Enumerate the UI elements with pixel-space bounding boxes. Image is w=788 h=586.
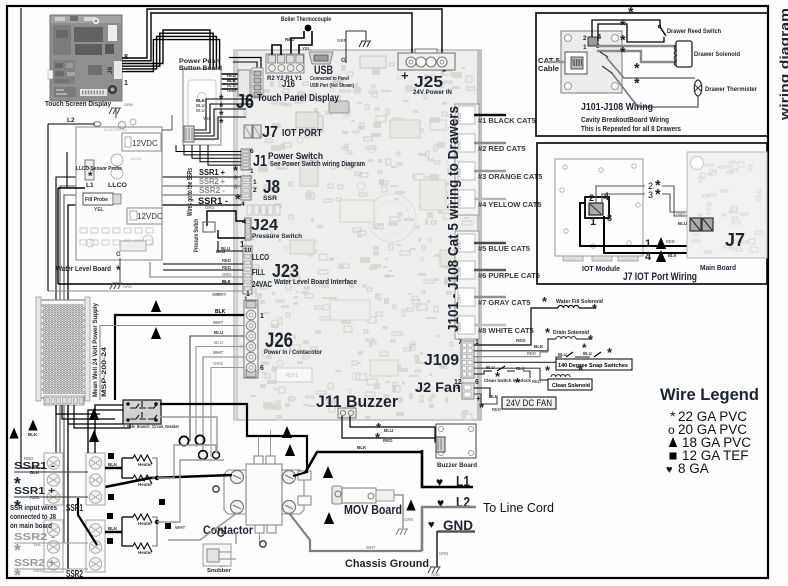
svg-text:J101-J108 Wiring: J101-J108 Wiring [581, 101, 653, 113]
RJ45 jack [565, 52, 587, 74]
board left edge bar [234, 50, 238, 420]
J7 IOT port wiring box [537, 143, 767, 284]
svg-text:J23: J23 [272, 260, 299, 281]
heater gray feeds [157, 445, 216, 478]
cat5 stub wire 7 [474, 296, 506, 299]
svg-text:Pressure Switch: Pressure Switch [252, 233, 302, 240]
clean switch interlock [474, 371, 492, 374]
svg-text:MSP-200-24: MSP-200-24 [101, 347, 108, 397]
MOV board [332, 486, 342, 504]
svg-text:*: * [628, 5, 634, 21]
svg-text:RLY1: RLY1 [286, 373, 298, 379]
svg-text:J25: J25 [414, 74, 443, 91]
svg-text:SSR: SSR [263, 195, 277, 202]
IOT wires 1 4 thick [580, 203, 713, 246]
svg-text:SSR1 +: SSR1 + [199, 168, 225, 177]
svg-text:GRA: GRA [227, 88, 236, 93]
svg-text:GRN: GRN [337, 38, 347, 43]
left triangles [9, 428, 18, 439]
small switch glyphs on board [600, 52, 608, 57]
connector J25 [398, 53, 455, 70]
watermark text wiring diagram [777, 8, 788, 121]
contactor lower wires [289, 513, 310, 540]
svg-text:J24: J24 [251, 217, 278, 234]
svg-text:See Power Switch wiring Diagra: See Power Switch wiring Diagram [270, 161, 365, 168]
cat5 stub wire 5 [474, 242, 506, 245]
svg-text:G: G [116, 252, 121, 258]
IOT wires 2 3 [596, 186, 645, 203]
svg-text:J8: J8 [263, 177, 280, 197]
svg-text:o: o [668, 423, 675, 437]
svg-text:*: * [14, 565, 21, 585]
svg-text:2_Pole_Branch_Circuit_Breaker: 2_Pole_Branch_Circuit_Breaker [123, 424, 179, 429]
svg-text:J7: J7 [262, 124, 278, 141]
svg-text:J6: J6 [236, 91, 254, 113]
breaker feed wires right [160, 404, 307, 476]
svg-text:Wires go to the SSRs: Wires go to the SSRs [187, 168, 194, 216]
LLCO probe [85, 160, 94, 180]
svg-text:3: 3 [607, 213, 612, 223]
svg-text:Cavity BreakoutBoard Wiring: Cavity BreakoutBoard Wiring [581, 115, 669, 124]
drain solenoid circuit [474, 339, 556, 351]
svg-text:J16: J16 [282, 79, 295, 90]
svg-text:BLU: BLU [214, 330, 223, 335]
svg-text:RED: RED [527, 351, 536, 356]
svg-text:12VDC: 12VDC [137, 212, 163, 221]
breakout board [561, 31, 622, 93]
svg-text:connected to J8: connected to J8 [10, 512, 56, 521]
svg-text:12VDC: 12VDC [132, 139, 158, 148]
J16 jumper wire [272, 45, 281, 55]
svg-text:FILL: FILL [252, 268, 265, 277]
main board fragment [687, 152, 767, 258]
svg-text:WHT: WHT [213, 320, 223, 325]
svg-text:BLK: BLK [108, 526, 118, 531]
svg-text:ORG: ORG [33, 568, 44, 573]
chassis ground wire [310, 540, 422, 551]
GRN ground wire [346, 31, 366, 63]
reed switch blade [658, 25, 660, 27]
svg-text:ORG: ORG [213, 361, 224, 366]
svg-text:*: * [655, 187, 661, 203]
relay on board [276, 368, 312, 382]
svg-text:Fill Probe: Fill Probe [85, 197, 108, 203]
connector J107 [458, 288, 475, 306]
svg-text:GRN: GRN [439, 551, 448, 556]
connector J105 [458, 234, 475, 252]
breaker left wires [95, 405, 123, 453]
svg-text:#1 BLACK CAT5: #1 BLACK CAT5 [478, 116, 536, 125]
board silk big circle [368, 194, 416, 242]
svg-text:GRN: GRN [124, 102, 133, 107]
svg-text:Drawer Reed Switch: Drawer Reed Switch [667, 29, 721, 35]
svg-text:*: * [219, 117, 224, 130]
pressure switch side label [193, 219, 200, 252]
connector J11 [338, 408, 356, 418]
connector J8 [241, 176, 251, 200]
connector J104 [458, 190, 475, 208]
cat5 stub wire 2 [474, 142, 506, 145]
svg-text:This is Repeated for all 8 Dra: This is Repeated for all 8 Drawers [581, 124, 681, 133]
svg-text:Clean Solenoid: Clean Solenoid [552, 383, 590, 389]
svg-text:J7 IOT Port Wiring: J7 IOT Port Wiring [623, 271, 697, 283]
svg-text:4: 4 [645, 251, 652, 263]
PSU wires [56, 405, 100, 414]
svg-text:To Line Cord: To Line Cord [483, 500, 554, 515]
svg-text:BLU: BLU [516, 366, 525, 371]
svg-text:1: 1 [246, 291, 250, 298]
svg-text:WHT: WHT [213, 350, 223, 355]
svg-text:Heater: Heater [138, 521, 152, 526]
drawer solenoid [597, 45, 676, 47]
svg-text:Cable: Cable [538, 66, 559, 73]
J101-J108 wiring box [536, 13, 768, 136]
connector J26 [244, 300, 258, 378]
svg-text:RED: RED [516, 338, 526, 343]
svg-text:GND: GND [431, 572, 440, 577]
svg-text:Contactor: Contactor [203, 525, 253, 537]
svg-text:RED: RED [24, 456, 34, 461]
svg-text:LLCO RELAY: LLCO RELAY [104, 128, 128, 132]
svg-text:1: 1 [124, 80, 128, 87]
board texture [238, 55, 480, 421]
main board PCB [234, 50, 481, 420]
connector J103 [458, 162, 475, 180]
SSR wires to J8 [56, 177, 241, 472]
svg-text:Drawer Solenoid: Drawer Solenoid [694, 52, 740, 58]
svg-text:Chassis Ground: Chassis Ground [345, 558, 429, 570]
svg-text:Power Switch: Power Switch [268, 151, 323, 161]
svg-text:WHT: WHT [366, 545, 376, 550]
SSR cross wire [78, 498, 97, 545]
svg-text:J7: J7 [725, 230, 745, 250]
svg-text:GRN: GRN [404, 517, 413, 522]
svg-text:SSR1: SSR1 [66, 503, 83, 514]
J6 label on display photo [107, 66, 114, 74]
svg-text:RED: RED [30, 495, 40, 500]
svg-text:6: 6 [260, 365, 264, 372]
svg-text:6: 6 [475, 379, 479, 386]
svg-text:Buzzer Board: Buzzer Board [437, 462, 477, 469]
svg-text:J101 - J108 Cat 5 wiring to Dr: J101 - J108 Cat 5 wiring to Drawers [445, 106, 462, 332]
svg-text:BLK: BLK [108, 462, 118, 467]
svg-text:Wire Legend: Wire Legend [660, 386, 759, 404]
svg-text:24V Power IN: 24V Power IN [413, 90, 452, 96]
cat5 stub wire 4 [474, 198, 506, 201]
svg-text:Clean Switch Interlock: Clean Switch Interlock [484, 378, 531, 384]
svg-text:2: 2 [583, 35, 587, 42]
svg-text:Pressure Switch: Pressure Switch [193, 219, 200, 252]
thermistor wires [606, 57, 695, 78]
svg-text:LLCO Sensor Probe: LLCO Sensor Probe [76, 166, 122, 172]
contactor feed wires [95, 475, 232, 489]
connector J16 [266, 54, 304, 73]
svg-text:#8 WHITE CAT5: #8 WHITE CAT5 [478, 326, 534, 335]
svg-text:SSR2 +: SSR2 + [199, 177, 225, 186]
24V DC FAN box [474, 388, 490, 397]
svg-text:WHT: WHT [212, 292, 222, 297]
vertical label J101-J108 cat5 wiring [445, 106, 462, 332]
J23 wires [218, 241, 243, 251]
snubber [203, 544, 231, 566]
svg-text:Button Board: Button Board [179, 65, 222, 72]
IOT module board [555, 159, 643, 256]
svg-text:BLK: BLK [28, 432, 38, 437]
push button board connector [184, 126, 194, 142]
svg-text:♥: ♥ [666, 464, 673, 476]
connector J1 [241, 149, 250, 170]
svg-text:BLU: BLU [384, 428, 393, 433]
svg-text:1: 1 [260, 313, 264, 320]
svg-text:BLU: BLU [678, 221, 687, 226]
legend 12 GA TEF [670, 453, 677, 460]
fill probe [83, 193, 113, 205]
wires J1 to button board [176, 145, 241, 152]
svg-text:*: * [670, 408, 676, 424]
svg-text:BLU: BLU [558, 352, 567, 357]
wire to J25 + [122, 13, 412, 61]
connector J109 [461, 341, 474, 378]
svg-text:1: 1 [645, 238, 651, 250]
svg-text:SSR input wires: SSR input wires [10, 503, 57, 512]
contactor [224, 456, 311, 533]
svg-text:RED: RED [222, 265, 231, 270]
svg-text:J6: J6 [107, 66, 114, 74]
svg-text:1: 1 [253, 179, 257, 186]
connector J102 [458, 134, 475, 152]
svg-text:Snubber: Snubber [207, 568, 231, 574]
svg-text:2: 2 [589, 193, 594, 203]
svg-text:Touch Screen Display: Touch Screen Display [45, 101, 111, 108]
svg-text:LLCO: LLCO [252, 253, 269, 262]
svg-text:Touch Panel Display: Touch Panel Display [257, 92, 339, 104]
water board bottom components [80, 228, 87, 233]
connector J2 [462, 383, 474, 399]
heater group 2 [105, 531, 122, 533]
svg-text:#7 GRAY CAT5: #7 GRAY CAT5 [478, 298, 530, 307]
svg-text:4: 4 [603, 191, 610, 203]
J6 wire loop [229, 58, 261, 92]
svg-text:+: + [401, 68, 409, 83]
svg-text:on main board: on main board [10, 521, 52, 530]
connectors J101-J108 [455, 104, 479, 215]
cat5 stub wire 1 [474, 114, 506, 117]
legend 18 GA PVC [669, 437, 678, 447]
svg-text:Heater: Heater [138, 550, 152, 555]
water fill solenoid circuit [474, 308, 558, 345]
svg-text:MOV Board: MOV Board [344, 503, 402, 517]
svg-text:Main Board: Main Board [700, 265, 736, 272]
connector J106 [458, 261, 475, 279]
board right edge bar [478, 50, 482, 420]
svg-text:RED: RED [222, 258, 231, 263]
snubber wire [235, 533, 237, 544]
svg-text:4: 4 [241, 201, 245, 208]
cat5 stub wire 6 [474, 269, 506, 272]
svg-text:140 Degree Snap Switches: 140 Degree Snap Switches [558, 363, 628, 369]
connector J108 [458, 316, 475, 334]
svg-text:*: * [582, 342, 587, 355]
svg-text:Power Push: Power Push [179, 58, 220, 65]
svg-text:RED: RED [383, 438, 393, 443]
SSR2 block [44, 520, 63, 572]
svg-text:RED: RED [532, 379, 541, 384]
left edge long wires [21, 8, 44, 468]
wires go to the SSRs label [187, 168, 194, 216]
svg-text:Heater: Heater [138, 482, 152, 487]
cat5 stub wire 3 [474, 170, 506, 173]
svg-text:J2 Fan: J2 Fan [415, 380, 461, 395]
svg-text:YEL: YEL [203, 116, 212, 121]
svg-text:LLCO: LLCO [108, 182, 127, 189]
label mean well [92, 303, 99, 397]
svg-text:ORG: ORG [676, 212, 686, 217]
pressure switch loop [207, 211, 245, 226]
buzzer board [436, 424, 476, 458]
svg-text:YEL: YEL [33, 542, 42, 547]
connector J6 [238, 70, 250, 96]
svg-text:1: 1 [590, 216, 596, 228]
wire to J25 - [122, 9, 442, 58]
svg-text:-: - [442, 62, 446, 77]
svg-text:24VAC: 24VAC [252, 280, 272, 289]
USB connector [309, 52, 333, 64]
svg-text:BLK: BLK [357, 445, 367, 450]
connector J101 [458, 106, 475, 124]
svg-text:8 GA: 8 GA [678, 461, 709, 476]
svg-text:RED: RED [666, 239, 675, 244]
MOV ground [394, 495, 403, 528]
svg-text:IOT PORT: IOT PORT [282, 128, 322, 139]
SSR1 block [44, 453, 63, 505]
svg-text:7: 7 [458, 339, 462, 346]
connector J7 [244, 125, 252, 138]
svg-text:♥: ♥ [428, 519, 435, 531]
svg-text:1: 1 [583, 44, 587, 51]
svg-text:#5 BLUE CAT5: #5 BLUE CAT5 [478, 244, 530, 253]
water level board [76, 127, 162, 260]
svg-text:10: 10 [244, 247, 252, 254]
cat5 stub wire 8 [474, 324, 506, 327]
svg-text:SSR2: SSR2 [66, 569, 83, 580]
svg-text:RED: RED [492, 407, 501, 412]
svg-text:WHT: WHT [175, 525, 185, 530]
svg-text:#3 ORANGE CAT5: #3 ORANGE CAT5 [478, 172, 542, 181]
svg-text:24V DC FAN: 24V DC FAN [506, 398, 552, 409]
svg-text:ORG: ORG [222, 272, 232, 277]
svg-text:Connected to Panel: Connected to Panel [310, 76, 349, 82]
clean solenoid circuit [474, 368, 548, 380]
J7 connector on main board [690, 218, 701, 231]
svg-text:BLU: BLU [486, 365, 495, 370]
svg-text:#2 RED CAT5: #2 RED CAT5 [478, 144, 525, 153]
svg-text:BLK: BLK [668, 253, 677, 258]
svg-text:J1: J1 [253, 153, 267, 170]
reed switch wire loop outer [592, 20, 660, 37]
power push button board [183, 69, 221, 145]
svg-text:BLK: BLK [30, 470, 40, 475]
svg-text:*: * [620, 45, 626, 61]
svg-text:GRN: GRN [123, 284, 132, 289]
svg-text:J109: J109 [424, 352, 459, 369]
connector J23 [243, 246, 252, 294]
contactor coil stubs [258, 437, 260, 456]
svg-text:SSR2 -: SSR2 - [199, 186, 225, 195]
wires push button to J6 connector [194, 99, 252, 130]
svg-text:USB: USB [314, 63, 333, 77]
svg-text:Heater: Heater [138, 462, 152, 467]
J26 wires [115, 315, 244, 400]
svg-text:LLCO: LLCO [131, 157, 141, 161]
svg-text:Drain Solenoid: Drain Solenoid [553, 330, 589, 336]
svg-text:Power In / Contacotor: Power In / Contacotor [264, 349, 322, 356]
mean well power supply [36, 297, 90, 405]
svg-text:L1: L1 [86, 182, 94, 189]
svg-text:BLK: BLK [534, 344, 544, 349]
J11 wires to buzzer board [350, 416, 438, 442]
wire bundle display to J6 [122, 30, 240, 74]
svg-text:BLU: BLU [214, 340, 223, 345]
svg-text:Water Level Board Interface: Water Level Board Interface [274, 279, 357, 286]
reed switch wire loop inner [598, 24, 664, 42]
svg-text:L2: L2 [456, 495, 470, 511]
heater group 1 [105, 467, 122, 469]
svg-text:wiring diagram: wiring diagram [777, 8, 788, 121]
svg-text:BLU: BLU [196, 108, 205, 113]
svg-text:J11 Buzzer: J11 Buzzer [316, 392, 398, 411]
board connector blobs [296, 112, 318, 128]
svg-text:*: * [116, 264, 121, 277]
svg-text:G: G [341, 58, 346, 64]
svg-text:BLK: BLK [222, 279, 231, 284]
svg-text:Boiler Thermocouple: Boiler Thermocouple [281, 17, 332, 23]
svg-text:USB Port (Not Shown): USB Port (Not Shown) [310, 83, 354, 89]
svg-text:YEL: YEL [94, 207, 104, 213]
component dark rect [329, 101, 349, 113]
svg-text:Water Level Board: Water Level Board [56, 264, 111, 273]
connector J24 [245, 218, 251, 240]
svg-text:#6 PURPLE CAT5: #6 PURPLE CAT5 [478, 271, 540, 280]
svg-text:Mean Well 24 Volt Power Supply: Mean Well 24 Volt Power Supply [92, 303, 99, 397]
triangle markers center [282, 426, 292, 438]
svg-text:L2: L2 [67, 117, 75, 124]
svg-text:*: * [634, 76, 640, 92]
svg-text:IOT Module: IOT Module [582, 266, 620, 273]
svg-text:2: 2 [253, 187, 257, 194]
svg-text:ORG: ORG [205, 205, 215, 210]
touch screen display photo [48, 15, 122, 101]
140 degree snap switches [474, 357, 562, 362]
svg-text:3: 3 [648, 190, 653, 200]
svg-text:Drawer Thermister: Drawer Thermister [705, 87, 758, 93]
svg-text:BLK: BLK [489, 394, 499, 399]
ground top of water board [115, 108, 117, 118]
breakout connector pins [588, 37, 598, 46]
svg-text:RED: RED [285, 37, 295, 42]
svg-text:#4 YELLOW CAT5: #4 YELLOW CAT5 [478, 200, 541, 209]
water board top wires [66, 152, 68, 188]
svg-text:*: * [620, 18, 626, 34]
o markers [179, 436, 188, 445]
IOT connector [585, 197, 609, 218]
svg-text:*: * [634, 61, 640, 77]
2 pole branch circuit breaker [123, 400, 161, 424]
svg-text:YEL: YEL [302, 46, 311, 51]
